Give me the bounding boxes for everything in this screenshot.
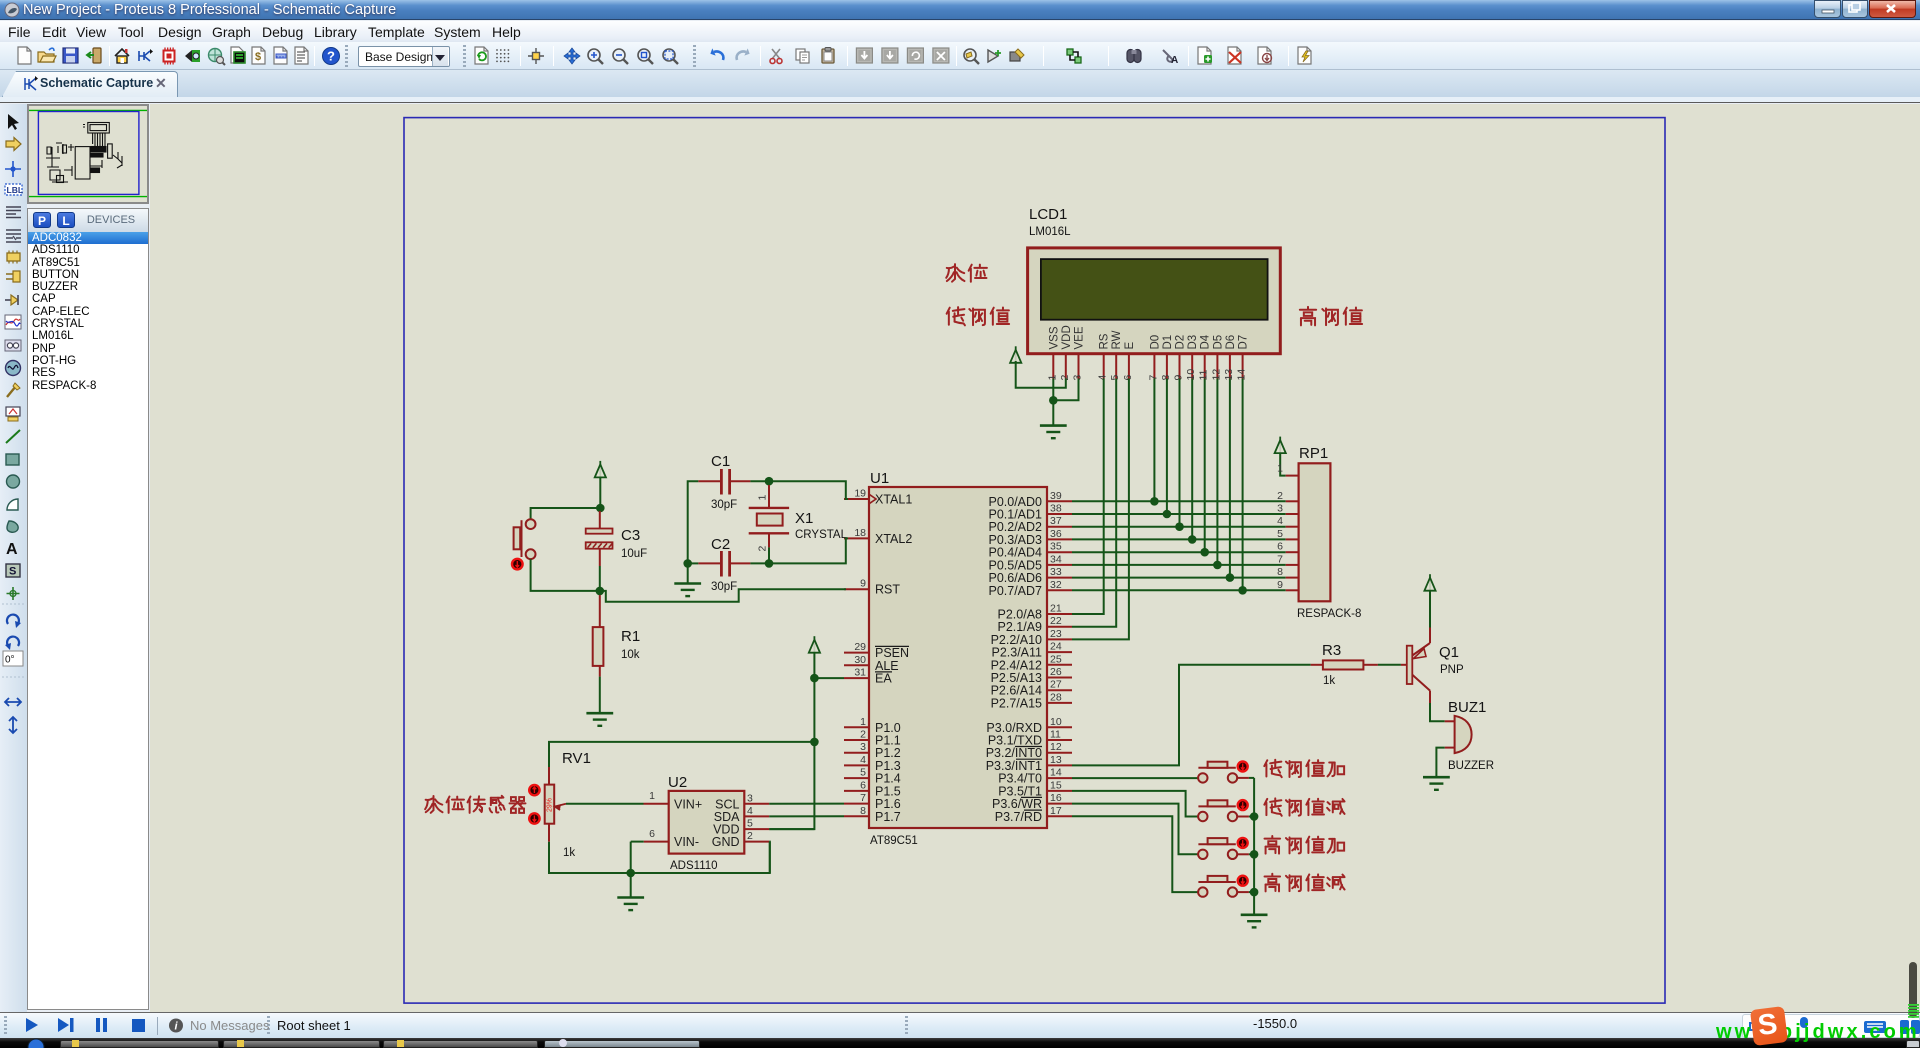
wire D4 LCD pin11 down to P0.4 row xyxy=(1204,379,1206,553)
svg-text:D6: D6 xyxy=(1225,335,1237,350)
scrollbar slider xyxy=(1909,962,1917,1018)
svg-text:RST: RST xyxy=(875,583,900,597)
svg-text:P2.7/A15: P2.7/A15 xyxy=(991,696,1042,710)
wire D0 LCD pin7 down to P0.0 row xyxy=(1153,379,1155,502)
wire button 低阀值减 to common xyxy=(1237,816,1254,818)
junction U2 gnd net xyxy=(626,869,635,878)
svg-text:27: 27 xyxy=(1050,679,1062,691)
svg-text:23: 23 xyxy=(1050,628,1062,640)
junction D3/P0.3 xyxy=(1188,535,1197,544)
menu bar xyxy=(0,21,1920,42)
junction power/button/C3 xyxy=(596,504,605,513)
wire U1 pin to button 高阀值减 xyxy=(1072,816,1198,892)
svg-text:EA: EA xyxy=(875,672,892,686)
svg-text:29: 29 xyxy=(854,641,866,653)
svg-text:24: 24 xyxy=(1050,641,1062,653)
push button (reset) xyxy=(512,519,535,569)
wire gnd net to U2 GND pin2 xyxy=(631,842,770,873)
svg-text:R3: R3 xyxy=(1322,642,1341,659)
svg-text:?: ? xyxy=(327,49,335,64)
junction VSS/VEE node xyxy=(1049,396,1058,405)
power symbol at EA xyxy=(809,636,820,653)
svg-text:1k: 1k xyxy=(1323,675,1335,687)
IC LCD1 LM016L display xyxy=(1028,206,1281,381)
crystal X1 xyxy=(749,485,848,552)
IC U2 ADS1110 xyxy=(644,774,770,872)
svg-text:25: 25 xyxy=(1050,653,1062,665)
label 水位传感器 (water level sensor) xyxy=(425,796,525,813)
svg-text:10: 10 xyxy=(1050,716,1062,728)
wire RV1 bottom to gnd net xyxy=(549,842,631,873)
svg-text:X1: X1 xyxy=(795,510,813,527)
svg-text:ADS1110: ADS1110 xyxy=(670,860,718,872)
svg-text:35: 35 xyxy=(1050,541,1062,553)
junction D2/P0.2 xyxy=(1175,522,1184,531)
wire RW LCD pin5 to U1 P2.1 xyxy=(1072,379,1116,627)
wire Q1 collector to BUZ1 xyxy=(1430,703,1445,721)
wire C1 left to C2 left xyxy=(688,481,699,563)
svg-text:PNP: PNP xyxy=(1440,664,1464,676)
svg-text:XTAL2: XTAL2 xyxy=(875,532,912,546)
toolbar xyxy=(0,42,1920,70)
ground below R1 xyxy=(586,713,613,726)
svg-text:32: 32 xyxy=(1050,579,1062,591)
svg-text:LM016L: LM016L xyxy=(1029,226,1071,238)
devices pane xyxy=(27,208,149,1010)
label 高阀值 (high threshold) xyxy=(1300,307,1362,325)
svg-text:3: 3 xyxy=(860,741,866,753)
wire P0.2 U1 to RP1 pin4 xyxy=(1072,526,1286,528)
svg-text:Root sheet 1: Root sheet 1 xyxy=(277,1018,351,1033)
resistor R1 10k xyxy=(593,595,640,677)
capacitor C1 30pF xyxy=(698,453,750,511)
wire button 高阀值加 to common xyxy=(1237,853,1254,855)
svg-text:BUZZER: BUZZER xyxy=(1448,760,1494,772)
resistor pack RP1 RESPACK-8 xyxy=(1277,445,1361,620)
svg-text:4: 4 xyxy=(860,754,866,766)
svg-text:2: 2 xyxy=(860,729,866,741)
push button 高阀值减 xyxy=(1198,876,1248,897)
wire P0.5 U1 to RP1 pin7 xyxy=(1072,564,1286,566)
svg-text:6: 6 xyxy=(860,779,866,791)
transistor Q1 PNP xyxy=(1401,628,1464,704)
wire C3 to reset node xyxy=(599,566,601,591)
svg-text:5: 5 xyxy=(1277,528,1283,540)
wire LCD pin3 VEE to junction xyxy=(1053,379,1078,401)
svg-text:2: 2 xyxy=(747,830,753,842)
wire E LCD pin6 to U1 P2.2 xyxy=(1072,379,1129,640)
svg-text:3: 3 xyxy=(747,792,753,804)
wire P0.3 U1 to RP1 pin5 xyxy=(1072,538,1286,540)
svg-text:GND: GND xyxy=(712,835,740,849)
svg-text:D5: D5 xyxy=(1212,335,1224,350)
svg-text:18: 18 xyxy=(854,527,866,539)
wire RV1 wiper to U2 VIN+ xyxy=(566,803,644,805)
status bar xyxy=(0,1012,1920,1038)
power symbol at RP1 xyxy=(1275,437,1286,454)
wire button 低阀值加 to common xyxy=(1237,777,1254,779)
junction D4/P0.4 xyxy=(1200,548,1209,557)
junction D6/P0.6 xyxy=(1226,573,1235,582)
svg-text:No Messages: No Messages xyxy=(190,1018,270,1033)
svg-text:29%: 29% xyxy=(547,798,554,812)
wire U2 GND down xyxy=(768,842,771,873)
wire reset button bottom to node xyxy=(531,559,600,591)
wire U1 pin to button 高阀值加 xyxy=(1072,804,1198,855)
svg-text:21: 21 xyxy=(1050,603,1062,615)
ground below buttons xyxy=(1241,915,1268,928)
wire to U1 EA pin31 xyxy=(814,677,844,679)
wire R3 to Q1 base xyxy=(1378,664,1401,666)
svg-text:LBL: LBL xyxy=(7,185,24,195)
wire D2 LCD pin9 down to P0.2 row xyxy=(1179,379,1181,527)
svg-text:2: 2 xyxy=(757,546,769,552)
svg-text:11: 11 xyxy=(1050,729,1061,741)
svg-text:D7: D7 xyxy=(1238,335,1250,350)
svg-text:C1: C1 xyxy=(711,453,730,470)
potentiometer RV1 1k (water level sensor) xyxy=(529,750,591,859)
wire to reset button top xyxy=(531,508,601,519)
svg-text:E: E xyxy=(1124,342,1136,350)
buzzer BUZ1 xyxy=(1445,699,1494,772)
label 高阀值加 xyxy=(1265,836,1345,854)
ground below C2 xyxy=(674,584,701,597)
label 水位 (water level) xyxy=(946,264,987,282)
wire P0.7 U1 to RP1 pin9 xyxy=(1072,589,1286,591)
svg-text:0°: 0° xyxy=(5,655,15,666)
svg-text:22: 22 xyxy=(1050,615,1062,627)
wire VIN- down to junction xyxy=(630,842,632,873)
svg-text:D0: D0 xyxy=(1149,335,1161,350)
schematic sheet border xyxy=(404,118,1665,1004)
wire across to RV1 top xyxy=(549,742,814,767)
svg-text:P1.7: P1.7 xyxy=(875,810,901,824)
IME panel + watermark xyxy=(1742,1014,1920,1038)
wire power to Q1 emitter xyxy=(1429,591,1431,628)
wire junction to C2 xyxy=(688,562,699,564)
tab bar xyxy=(0,70,1920,97)
svg-text:13: 13 xyxy=(1050,754,1062,766)
wire C1 right to crystal node1 xyxy=(750,480,769,482)
wire junction to ground xyxy=(630,873,632,898)
wire C2 right to node2 xyxy=(750,562,769,564)
svg-text:26: 26 xyxy=(1050,666,1062,678)
wire D5 LCD pin12 down to P0.5 row xyxy=(1216,379,1218,565)
svg-text:10k: 10k xyxy=(621,649,640,661)
svg-text:10uF: 10uF xyxy=(621,548,647,560)
wire U1 pin to button 低阀值减 xyxy=(1072,791,1198,817)
svg-text:28: 28 xyxy=(1050,691,1062,703)
junction D5/P0.5 xyxy=(1213,561,1222,570)
wire buttons common to ground xyxy=(1253,778,1255,915)
svg-text:7: 7 xyxy=(1277,553,1283,565)
capacitor C2 30pF xyxy=(698,536,750,593)
svg-text:P3.7/RD: P3.7/RD xyxy=(995,810,1042,824)
IC U1 AT89C51 xyxy=(844,470,1072,847)
junction RV1 top feed xyxy=(810,738,819,747)
svg-text:1k: 1k xyxy=(563,847,575,859)
taskbar xyxy=(0,1038,1920,1048)
power symbol at Q1 emitter xyxy=(1424,574,1435,591)
svg-text:BUZ1: BUZ1 xyxy=(1448,699,1486,716)
wire U2 VDD right xyxy=(769,828,814,830)
svg-text:33: 33 xyxy=(1050,566,1062,578)
svg-text:38: 38 xyxy=(1050,503,1062,515)
label 低阀值加 xyxy=(1264,760,1344,777)
svg-text:30pF: 30pF xyxy=(711,499,737,511)
wire RS LCD pin4 to U1 P2.0 xyxy=(1072,379,1104,615)
power symbol at reset xyxy=(595,461,606,478)
svg-text:1: 1 xyxy=(649,790,655,802)
wire power to RP1 pin1 xyxy=(1280,453,1286,476)
power symbol VDD at LCD xyxy=(1010,346,1021,363)
svg-text:VSS: VSS xyxy=(1048,326,1060,349)
wire X1 pin2 down xyxy=(768,547,770,563)
svg-text:31: 31 xyxy=(854,667,866,679)
wire U1 P3.4 to button 低阀值加 xyxy=(1072,777,1198,779)
junction buttons common xyxy=(1250,850,1259,859)
svg-text:RP1: RP1 xyxy=(1299,445,1328,462)
svg-text:6: 6 xyxy=(649,828,655,840)
wire power to LCD pin2 VDD xyxy=(1016,361,1066,388)
capacitor C3 10uF electrolytic xyxy=(586,511,648,566)
svg-text:8: 8 xyxy=(1277,566,1283,578)
wire EA node down xyxy=(813,678,815,742)
wire junction to ground xyxy=(1052,400,1054,425)
svg-text:8: 8 xyxy=(860,805,866,817)
svg-text:19: 19 xyxy=(854,488,866,500)
svg-text:D1: D1 xyxy=(1162,335,1174,350)
wire down to U2 VDD pin5 xyxy=(769,742,814,829)
svg-text:P0.7/AD7: P0.7/AD7 xyxy=(988,584,1042,598)
junction D0/P0.0 xyxy=(1150,497,1159,506)
left tool strip xyxy=(0,104,27,1012)
svg-text:R1: R1 xyxy=(621,628,640,645)
svg-text:36: 36 xyxy=(1050,528,1062,540)
svg-text:CRYSTAL: CRYSTAL xyxy=(795,529,848,541)
junction reset node RST/R1 xyxy=(596,587,605,596)
svg-text:RS: RS xyxy=(1099,333,1111,349)
wire power down to reset node xyxy=(599,477,601,508)
svg-text:6: 6 xyxy=(1277,541,1283,553)
svg-text:1: 1 xyxy=(860,716,866,728)
svg-text:LCD1: LCD1 xyxy=(1029,206,1067,223)
svg-text:16: 16 xyxy=(1050,792,1062,804)
resistor R3 1k xyxy=(1311,642,1378,687)
wire U2 SDA to U1 P1.7 xyxy=(769,815,844,817)
wire BUZ1 to ground xyxy=(1436,748,1444,778)
wire D7 LCD pin14 down to P0.7 row xyxy=(1242,379,1244,591)
svg-text:14: 14 xyxy=(1050,767,1062,779)
svg-text:4: 4 xyxy=(1277,515,1283,527)
svg-text:VIN+: VIN+ xyxy=(674,797,702,811)
svg-text:3: 3 xyxy=(1277,503,1283,515)
svg-text:1: 1 xyxy=(757,495,769,501)
svg-text:5: 5 xyxy=(860,767,866,779)
svg-text:XTAL1: XTAL1 xyxy=(875,493,912,507)
overview pane xyxy=(27,104,149,204)
svg-text:15: 15 xyxy=(1050,779,1062,791)
svg-text:A: A xyxy=(6,541,18,558)
wire junction down to ground xyxy=(687,563,689,583)
wire VIN- left xyxy=(631,841,644,843)
svg-text:1: 1 xyxy=(1277,463,1283,475)
svg-text:5: 5 xyxy=(747,818,753,830)
svg-text:34: 34 xyxy=(1050,553,1062,565)
svg-text:RV1: RV1 xyxy=(562,750,591,767)
svg-text:39: 39 xyxy=(1050,490,1062,502)
svg-text:2: 2 xyxy=(1277,490,1283,502)
svg-text:U2: U2 xyxy=(668,774,687,791)
wire LCD pin1 VSS down xyxy=(1052,379,1054,401)
wire node2 to U1 XTAL2 xyxy=(769,538,848,563)
svg-text:S: S xyxy=(9,566,16,578)
wire R1 to ground xyxy=(599,677,601,714)
svg-text:D3: D3 xyxy=(1187,335,1199,350)
wire reset node to U1 RST pin9 xyxy=(600,589,846,602)
svg-text:RW: RW xyxy=(1111,330,1123,349)
ground below U2 xyxy=(617,898,644,911)
junction D7/P0.7 xyxy=(1238,586,1247,595)
junction buttons common xyxy=(1250,812,1259,821)
svg-text:37: 37 xyxy=(1050,515,1062,527)
wire D3 LCD pin10 down to P0.3 row xyxy=(1191,379,1193,540)
wire U2 SCL to U1 P1.6 xyxy=(769,803,844,805)
svg-text:D2: D2 xyxy=(1175,335,1187,350)
svg-text:A: A xyxy=(1171,55,1178,66)
label 低阀值 (low threshold) xyxy=(947,307,1009,325)
push button 低阀值加 xyxy=(1198,762,1248,783)
push button 低阀值减 xyxy=(1198,800,1248,821)
canvas xyxy=(150,104,1915,1012)
svg-text:30pF: 30pF xyxy=(711,581,737,593)
junction EA xyxy=(810,674,819,683)
ground at LCD xyxy=(1040,426,1067,439)
svg-text:4: 4 xyxy=(747,805,753,817)
wire D1 LCD pin8 down to P0.1 row xyxy=(1166,379,1168,515)
title bar xyxy=(0,0,1920,20)
wire power down to EA node xyxy=(813,653,815,678)
wire D6 LCD pin13 down to P0.6 row xyxy=(1229,379,1231,578)
svg-text:VDD: VDD xyxy=(1061,325,1073,349)
wire P0.4 U1 to RP1 pin6 xyxy=(1072,551,1286,553)
svg-text:C3: C3 xyxy=(621,527,640,544)
svg-text:9: 9 xyxy=(1277,579,1283,591)
svg-text:VIN-: VIN- xyxy=(674,835,699,849)
svg-text:9: 9 xyxy=(860,578,866,590)
wire P0.0 U1 to RP1 pin2 xyxy=(1072,500,1286,502)
svg-text:D4: D4 xyxy=(1200,334,1212,349)
wire P0.6 U1 to RP1 pin8 xyxy=(1072,577,1286,579)
wire U1 P3.3 to R3 xyxy=(1072,665,1311,766)
svg-text:C2: C2 xyxy=(711,536,730,553)
junction D1/P0.1 xyxy=(1163,510,1172,519)
svg-text:VEE: VEE xyxy=(1074,326,1086,349)
junction C2/X1/XTAL2 xyxy=(765,559,774,568)
junction C2/ground xyxy=(683,559,692,568)
svg-text:30: 30 xyxy=(854,654,866,666)
svg-text:Q1: Q1 xyxy=(1439,644,1459,661)
wire P0.1 U1 to RP1 pin3 xyxy=(1072,513,1286,515)
junction buttons common xyxy=(1250,888,1259,897)
svg-text:U1: U1 xyxy=(870,470,889,487)
svg-text:$: $ xyxy=(255,51,261,63)
label 高阀值减 xyxy=(1265,874,1345,892)
svg-text:RESPACK-8: RESPACK-8 xyxy=(1297,608,1361,620)
svg-text:12: 12 xyxy=(1050,741,1062,753)
wire node1 to U1 XTAL1 xyxy=(769,481,848,499)
svg-text:7: 7 xyxy=(860,792,866,804)
push button 高阀值加 xyxy=(1198,838,1248,859)
svg-text:AT89C51: AT89C51 xyxy=(870,835,918,847)
ground below BUZ1 xyxy=(1423,777,1450,790)
wire button 高阀值减 to common xyxy=(1237,891,1254,893)
junction C1/X1/XTAL1 xyxy=(765,477,774,486)
svg-text:17: 17 xyxy=(1050,805,1062,817)
label 低阀值减 xyxy=(1264,798,1344,815)
